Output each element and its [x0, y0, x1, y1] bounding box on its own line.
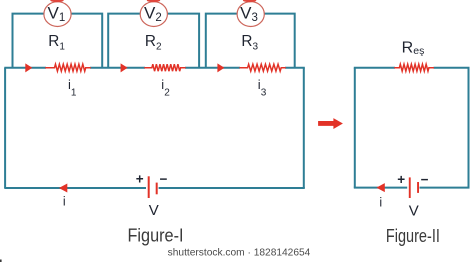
- corner mark: [0, 260, 2, 262]
- current arrow i Figure-II: [376, 183, 384, 192]
- voltmeter V1: [44, 0, 71, 26]
- wire: voltmeter loop 3: [206, 14, 295, 68]
- wire: Figure-I bottom left segment: [4, 187, 146, 189]
- voltmeter V3: [237, 0, 264, 26]
- current arrow i2: [121, 63, 128, 72]
- svg-text:+: +: [136, 172, 144, 187]
- wire: Figure-II top wire segments: [354, 67, 470, 69]
- svg-text:−: −: [160, 172, 168, 187]
- svg-text:V: V: [409, 203, 419, 220]
- battery V Figure-II: long plate: [409, 177, 411, 198]
- svg-text:i: i: [63, 194, 66, 208]
- resistor R1: [45, 64, 91, 71]
- svg-text:V: V: [149, 202, 159, 219]
- wire: voltmeter loop 1: [13, 14, 103, 68]
- wire: Figure-II loop left side: [354, 68, 356, 188]
- battery V Figure-II: short plate: [417, 182, 419, 193]
- current arrow i3: [217, 63, 224, 72]
- current arrow i Figure-I: [59, 184, 67, 193]
- wire: Figure-I bottom right segment: [159, 187, 305, 189]
- wire: voltmeter loop 2: [108, 14, 199, 68]
- current arrow i1: [25, 63, 32, 72]
- wire: Figure-II bottom left segment: [354, 187, 407, 189]
- resistor R3: [239, 64, 285, 71]
- battery V Figure-I: short plate: [156, 183, 158, 195]
- svg-text:i: i: [379, 196, 382, 210]
- wire: Figure-I outer loop left side: [4, 68, 6, 188]
- svg-text:Figure-II: Figure-II: [386, 225, 440, 246]
- svg-text:+: +: [397, 172, 405, 187]
- wire: Figure-I outer loop right side: [303, 68, 305, 188]
- battery V Figure-I: long plate: [148, 176, 150, 198]
- arrow between figures: [318, 118, 343, 129]
- resistor Res: [394, 64, 434, 71]
- svg-text:Figure-I: Figure-I: [128, 225, 184, 246]
- svg-text:−: −: [421, 172, 429, 187]
- wire: Figure-I main top wire segments: [4, 67, 305, 69]
- resistor R2: [144, 64, 185, 71]
- wire: Figure-II bottom right segment: [420, 187, 470, 189]
- voltmeter V2: [140, 0, 167, 26]
- svg-text:shutterstock.com · 1828142654: shutterstock.com · 1828142654: [168, 248, 311, 259]
- wire: Figure-II loop right side: [468, 68, 470, 188]
